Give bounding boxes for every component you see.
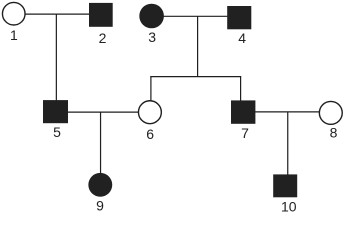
svg-text:5: 5: [53, 124, 61, 140]
wire couple line 7-8: [255, 111, 319, 113]
individual 5 affected male square: [43, 100, 68, 123]
wire drop to individual 7: [240, 77, 242, 101]
wire couple line 3-4: [163, 15, 227, 17]
individual 7 affected male square: [231, 100, 255, 123]
svg-text:2: 2: [99, 30, 107, 46]
wire couple line 5-6: [68, 111, 139, 113]
individual 9 affected female circle: [88, 173, 112, 197]
individual 2 affected male square: [89, 3, 113, 27]
wire descent from couple 5-6 to individual 9: [100, 112, 102, 174]
wire sibship line for 6 and 7: [150, 76, 241, 78]
individual 3 affected female circle: [139, 4, 164, 29]
svg-text:8: 8: [330, 124, 338, 140]
svg-text:3: 3: [148, 29, 156, 45]
svg-text:6: 6: [146, 126, 154, 142]
wire drop to individual 6: [150, 77, 152, 102]
individual 8 unaffected female circle: [319, 101, 342, 124]
svg-text:7: 7: [241, 125, 249, 141]
svg-text:10: 10: [281, 198, 297, 213]
individual 4 affected male square: [227, 6, 251, 29]
svg-text:4: 4: [238, 30, 246, 46]
wire descent from couple 1-2 to individual 5: [55, 14, 57, 100]
svg-text:1: 1: [10, 27, 18, 43]
wire descent from couple 3-4 to sibship line: [197, 16, 199, 76]
svg-text:9: 9: [96, 197, 104, 213]
individual 6 unaffected female circle: [138, 101, 161, 124]
wire couple line 1-2: [25, 13, 90, 15]
individual 10 affected male square: [273, 174, 297, 197]
wire descent from couple 7-8 to individual 10: [287, 112, 289, 175]
individual 1 unaffected female circle: [2, 2, 25, 25]
